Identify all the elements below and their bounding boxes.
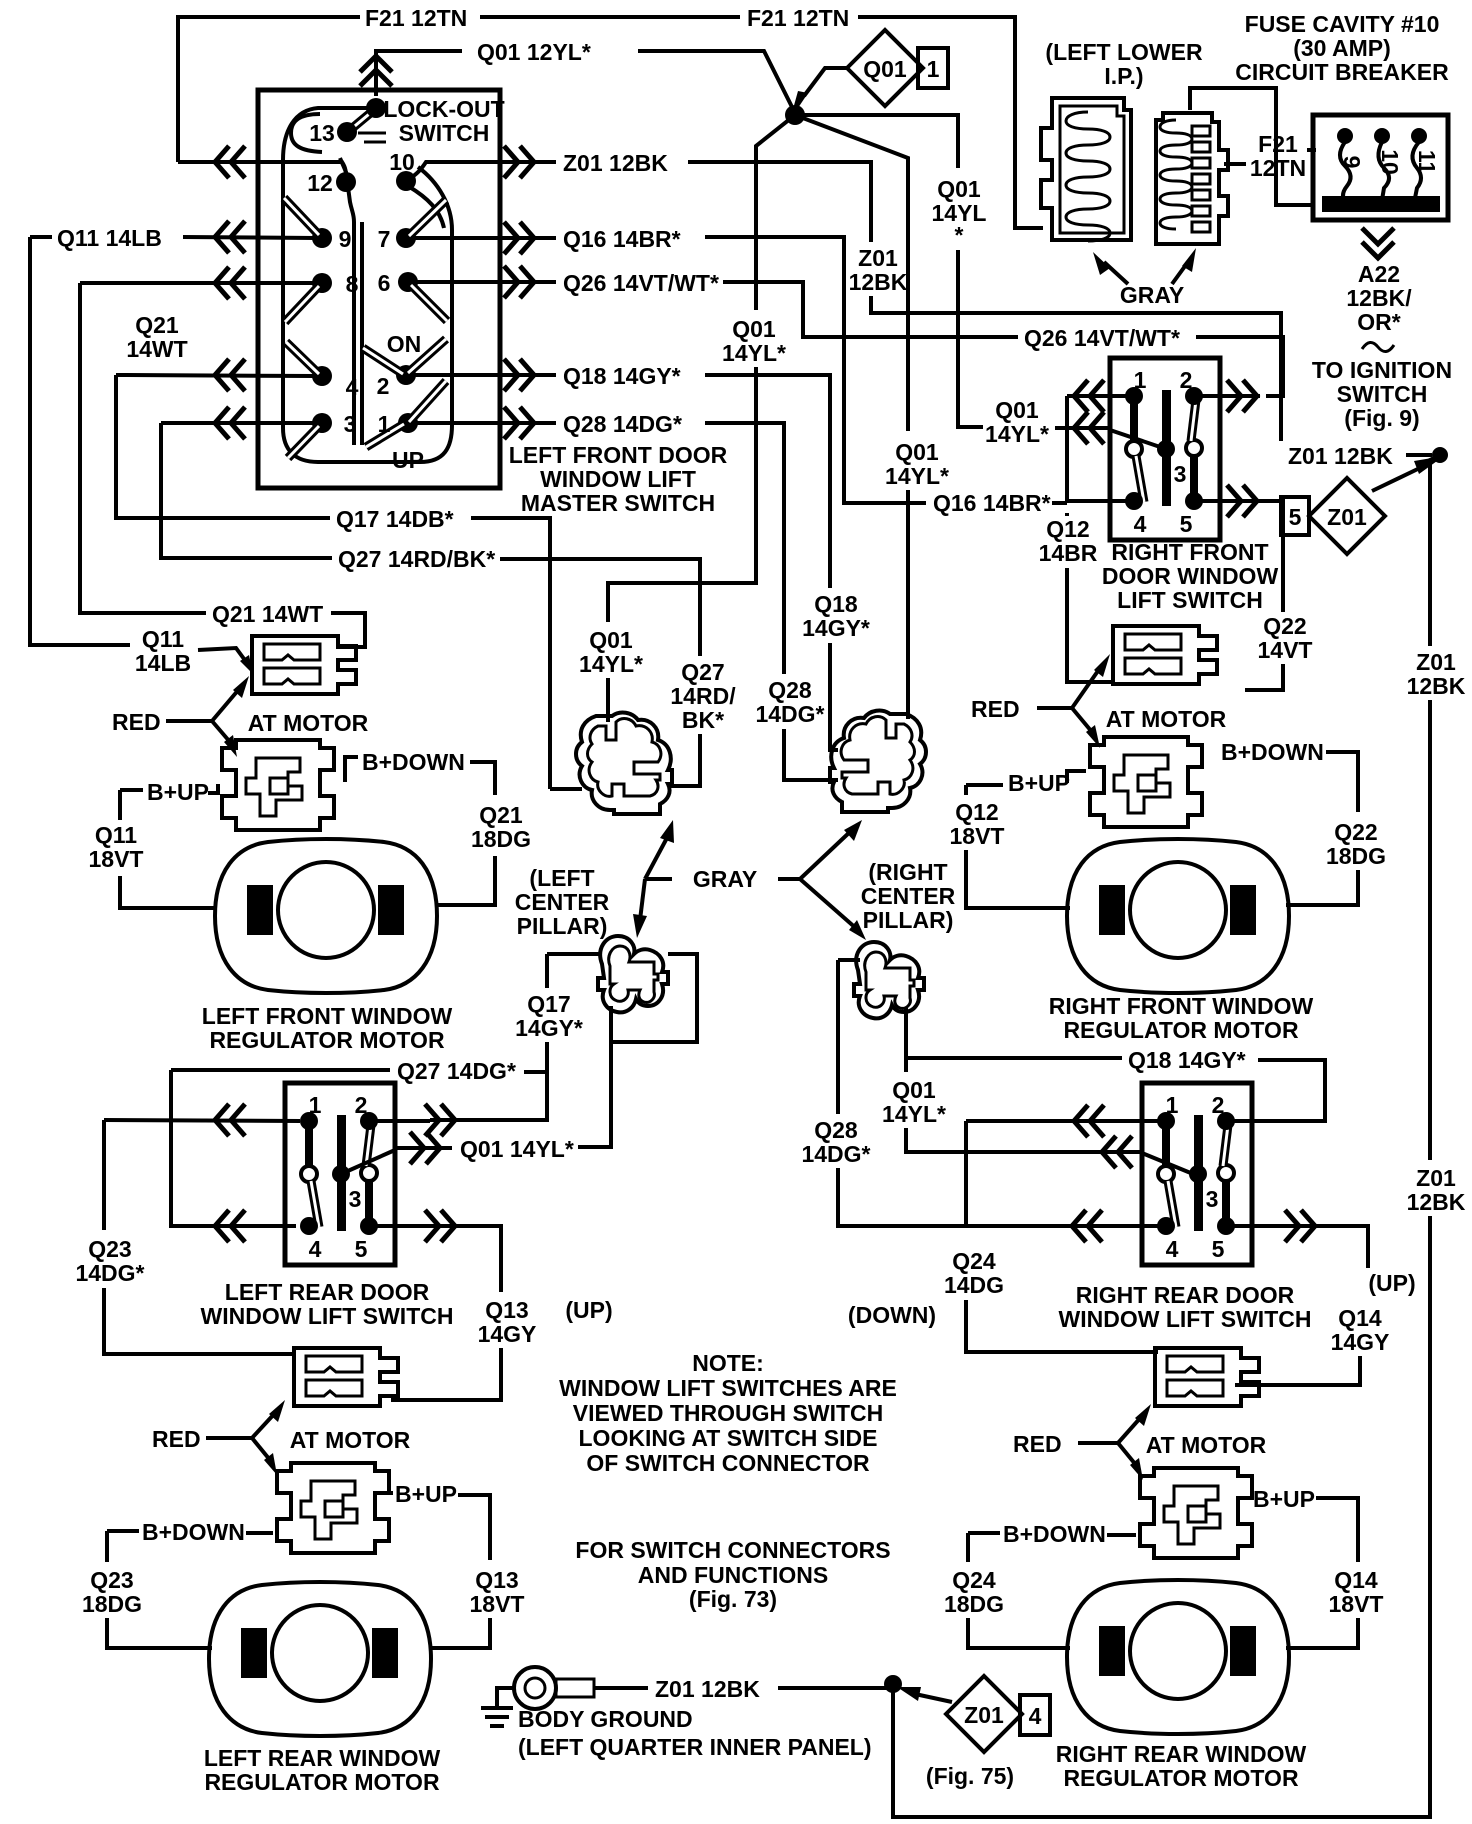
svg-text:LEFT FRONT WINDOW: LEFT FRONT WINDOW xyxy=(202,1003,453,1029)
wire GRAY dash right xyxy=(778,877,800,881)
svg-text:14DG: 14DG xyxy=(944,1272,1004,1298)
lock-out switch lever xyxy=(350,110,374,130)
node Q01 junction xyxy=(785,105,805,125)
svg-text:Z01: Z01 xyxy=(964,1702,1004,1728)
svg-text:B+UP: B+UP xyxy=(1008,770,1070,796)
wire RFD pin5 out xyxy=(1200,501,1283,612)
svg-text:Q18: Q18 xyxy=(814,591,858,617)
wire Q17 right and down xyxy=(471,518,550,789)
chevron RRD pin5 out xyxy=(1285,1210,1315,1242)
wire Q21 row xyxy=(80,281,316,285)
pin 4 xyxy=(312,366,332,386)
svg-text:14DG*: 14DG* xyxy=(75,1260,144,1286)
wire Q27 row xyxy=(161,423,332,558)
svg-text:(UP): (UP) xyxy=(565,1297,612,1323)
svg-text:Q21 14WT: Q21 14WT xyxy=(212,601,323,627)
wire RED dash LR xyxy=(206,1436,252,1440)
RR switch connector xyxy=(1155,1348,1259,1406)
chevron in F21 row xyxy=(215,146,245,178)
svg-text:A22: A22 xyxy=(1358,261,1400,287)
svg-text:WINDOW LIFT SWITCHES ARE: WINDOW LIFT SWITCHES ARE xyxy=(559,1375,897,1401)
svg-text:AT MOTOR: AT MOTOR xyxy=(248,710,369,736)
svg-text:(Fig. 73): (Fig. 73) xyxy=(689,1586,777,1612)
svg-text:LEFT REAR WINDOW: LEFT REAR WINDOW xyxy=(204,1745,441,1771)
wire Q16 to right xyxy=(705,237,926,503)
arrow from Q01 diamond to junction xyxy=(804,68,847,96)
right rear window regulator motor xyxy=(1067,1580,1289,1734)
wire Q28 out of switch xyxy=(414,421,556,425)
svg-text:18DG: 18DG xyxy=(471,826,531,852)
svg-text:9: 9 xyxy=(339,226,352,252)
wire Q28 pillar down xyxy=(836,960,840,1114)
wire Z01 right vertical xyxy=(1428,700,1432,1160)
svg-text:Q23: Q23 xyxy=(88,1236,131,1262)
wire F21 top middle xyxy=(480,15,740,19)
IP connector A inner xyxy=(1060,106,1124,233)
wire Q18 down to quad connector xyxy=(830,643,838,750)
Z01 splice diamond bottom xyxy=(946,1676,1022,1752)
wire Q17 down to LRD pin2 row xyxy=(430,1072,547,1120)
wire B+DOWN bracket RR xyxy=(968,1533,1136,1535)
wire Q17 row xyxy=(116,375,330,518)
chevron RFD row1 xyxy=(1074,380,1104,412)
Z01 diamond cavity box 4 xyxy=(1020,1695,1050,1735)
svg-text:Q17 14DB*: Q17 14DB* xyxy=(336,506,454,532)
wire F21 to IP connector xyxy=(858,17,1043,228)
wire Q24 18DG vertical xyxy=(966,1533,970,1562)
svg-text:*: * xyxy=(955,222,964,248)
svg-text:(RIGHT: (RIGHT xyxy=(868,859,947,885)
svg-text:MASTER SWITCH: MASTER SWITCH xyxy=(521,490,715,516)
svg-text:CENTER: CENTER xyxy=(515,889,610,915)
svg-text:Q13: Q13 xyxy=(485,1297,528,1323)
wire RRD pin2 out stub xyxy=(1226,1119,1298,1123)
wire Q13 18VT to motor xyxy=(430,1618,490,1648)
wire Q16 out of switch xyxy=(412,236,556,240)
svg-text:PILLAR): PILLAR) xyxy=(863,907,954,933)
svg-text:Q26 14VT/WT*: Q26 14VT/WT* xyxy=(563,270,719,296)
svg-text:OF SWITCH CONNECTOR: OF SWITCH CONNECTOR xyxy=(586,1450,870,1476)
chevron up on lockout wire xyxy=(360,56,392,86)
lock-out contact marks xyxy=(358,133,386,142)
wire Q23 18DG vertical xyxy=(105,1531,109,1562)
wire B+UP bracket RR xyxy=(1316,1498,1358,1562)
master switch lock-out curl xyxy=(291,114,322,152)
svg-text:1: 1 xyxy=(927,56,940,82)
arrow RED to motor connector LR xyxy=(252,1438,270,1460)
RFD feed diagonal xyxy=(1110,430,1166,449)
svg-text:REGULATOR MOTOR: REGULATOR MOTOR xyxy=(209,1027,445,1053)
arrow RED to motor connector LF xyxy=(212,721,230,742)
svg-text:2: 2 xyxy=(377,373,390,399)
wire Z01 right vertical top xyxy=(1430,455,1440,646)
svg-text:14YL*: 14YL* xyxy=(579,651,643,677)
svg-text:8: 8 xyxy=(346,271,359,297)
chevron LRD Q01 out xyxy=(410,1132,440,1164)
svg-text:6: 6 xyxy=(378,270,391,296)
arrow RED to switch connector RR xyxy=(1118,1416,1142,1443)
svg-text:18VT: 18VT xyxy=(1329,1591,1384,1617)
svg-text:RED: RED xyxy=(152,1426,201,1452)
svg-text:Q24: Q24 xyxy=(952,1567,996,1593)
chevron Q16 row xyxy=(504,222,534,254)
master switch pin10 curve xyxy=(408,186,444,228)
svg-text:14BR: 14BR xyxy=(1039,540,1098,566)
svg-text:14YL*: 14YL* xyxy=(985,421,1049,447)
svg-text:12TN: 12TN xyxy=(1250,155,1306,181)
wire Q26 out of switch xyxy=(414,280,556,284)
svg-text:Q01: Q01 xyxy=(892,1077,936,1103)
arrow RED to motor connector RF xyxy=(1072,708,1092,732)
svg-text:LOCK-OUT: LOCK-OUT xyxy=(383,96,504,122)
svg-text:F21: F21 xyxy=(1258,131,1298,157)
wire Q11 row to switch xyxy=(183,237,316,238)
svg-text:18VT: 18VT xyxy=(470,1591,525,1617)
svg-text:Q28 14DG*: Q28 14DG* xyxy=(563,411,682,437)
svg-text:Q01: Q01 xyxy=(863,56,907,82)
RRD feed diagonal xyxy=(1142,1153,1198,1176)
svg-text:GRAY: GRAY xyxy=(1120,282,1184,308)
Z01 diamond cavity box 5 xyxy=(1281,497,1309,535)
wire Q27 right and down xyxy=(500,559,700,656)
wire Q22 to connector xyxy=(1245,664,1283,690)
svg-text:(Fig. 75): (Fig. 75) xyxy=(926,1763,1014,1789)
svg-text:WINDOW LIFT: WINDOW LIFT xyxy=(540,466,696,492)
svg-text:(LEFT: (LEFT xyxy=(529,865,594,891)
Z01 splice diamond xyxy=(1309,478,1385,554)
svg-text:CENTER: CENTER xyxy=(861,883,956,909)
svg-text:(LEFT LOWER: (LEFT LOWER xyxy=(1045,39,1203,65)
svg-text:Q14: Q14 xyxy=(1334,1567,1378,1593)
ring terminal tab xyxy=(556,1679,594,1697)
arrow GRAY to right quad xyxy=(800,830,852,879)
rocker contact pin4 xyxy=(286,342,319,374)
chevron Q01 RFD row2 xyxy=(1074,412,1104,444)
RR motor connector xyxy=(1140,1468,1252,1558)
chevron Q18 out row xyxy=(504,359,534,391)
svg-text:FUSE CAVITY #10: FUSE CAVITY #10 xyxy=(1245,11,1440,37)
rocker contact pin7 xyxy=(409,200,446,236)
wire B+DOWN bracket left LF xyxy=(345,757,358,782)
svg-text:RED: RED xyxy=(1013,1431,1062,1457)
svg-text:7: 7 xyxy=(378,226,391,252)
IP connector B terminals xyxy=(1160,120,1192,229)
wire connector B to fuse box xyxy=(1190,88,1315,205)
svg-text:Z01: Z01 xyxy=(1416,649,1456,675)
arrow RED to switch connector LR xyxy=(252,1412,276,1438)
wire B+UP bracket LF xyxy=(120,784,218,793)
svg-text:Q26 14VT/WT*: Q26 14VT/WT* xyxy=(1024,325,1180,351)
fuse element 11 xyxy=(1412,142,1421,198)
right pillar connector xyxy=(854,942,924,1018)
chevron Q28 row xyxy=(215,407,245,439)
wire RED dash LF xyxy=(166,719,212,723)
body ground ring terminal xyxy=(514,1667,556,1709)
wire RFD pin2 out xyxy=(1200,394,1260,398)
wire Q23 to connector xyxy=(104,1288,294,1354)
svg-text:Z01: Z01 xyxy=(1416,1165,1456,1191)
wire Q28 to vertical xyxy=(705,423,784,674)
rocker contact pin6 xyxy=(411,285,447,321)
rocker contact pin2 right xyxy=(408,339,446,373)
svg-text:14RD/: 14RD/ xyxy=(670,683,736,709)
wire Z01 to right xyxy=(688,162,871,242)
wire Z01 to dot xyxy=(1406,453,1432,457)
master switch slot outline xyxy=(283,108,452,462)
wire Q21 into switch connector xyxy=(331,613,365,647)
svg-text:B+DOWN: B+DOWN xyxy=(142,1519,245,1545)
svg-text:AND FUNCTIONS: AND FUNCTIONS xyxy=(638,1562,828,1588)
chevron Q21 row xyxy=(215,267,245,299)
svg-text:Q28: Q28 xyxy=(814,1117,858,1143)
svg-text:Q11: Q11 xyxy=(142,626,184,652)
svg-text:Q24: Q24 xyxy=(952,1248,996,1274)
svg-text:Q18 14GY*: Q18 14GY* xyxy=(1128,1047,1246,1073)
svg-text:B+DOWN: B+DOWN xyxy=(1003,1521,1106,1547)
fuse terminal 11 xyxy=(1411,128,1427,144)
svg-text:SWITCH: SWITCH xyxy=(399,120,490,146)
chevron out Z01 row xyxy=(504,146,534,178)
svg-text:B+UP: B+UP xyxy=(1253,1486,1315,1512)
RFD switch xyxy=(1110,358,1220,540)
wire Q24 to connector xyxy=(966,1300,1158,1352)
arrow GRAY to connector A xyxy=(1104,262,1128,284)
wire Q14 to connector xyxy=(1235,1356,1360,1385)
svg-text:12BK/: 12BK/ xyxy=(1346,285,1412,311)
svg-text:BK*: BK* xyxy=(682,707,724,733)
wire Q14 18VT to motor xyxy=(1286,1618,1358,1648)
svg-text:Q01: Q01 xyxy=(995,397,1039,423)
pin 10 xyxy=(396,171,416,191)
wire Q28 row left xyxy=(161,421,316,425)
LRD switch xyxy=(285,1083,395,1265)
rocker contact pin1 right xyxy=(409,381,446,422)
wire Q01 left pillar down xyxy=(578,1042,611,1147)
wire Q21 14WT label row xyxy=(80,283,206,613)
svg-text:Q21: Q21 xyxy=(479,802,523,828)
arrow GRAY to left quad xyxy=(645,836,668,879)
chevron Q28 out row xyxy=(504,407,534,439)
svg-text:DOOR WINDOW: DOOR WINDOW xyxy=(1102,563,1279,589)
wire Q16 into RFD row4 xyxy=(1052,501,1067,505)
svg-text:(UP): (UP) xyxy=(1368,1270,1415,1296)
svg-text:14WT: 14WT xyxy=(126,336,187,362)
Q01 diamond cavity box 1 xyxy=(918,48,948,88)
svg-text:GRAY: GRAY xyxy=(693,866,757,892)
arrow GRAY to connector B xyxy=(1172,262,1188,284)
svg-text:LOOKING AT SWITCH SIDE: LOOKING AT SWITCH SIDE xyxy=(579,1425,878,1451)
svg-text:NOTE:: NOTE: xyxy=(692,1350,764,1376)
lock-out common pin xyxy=(366,98,386,118)
svg-text:SWITCH: SWITCH xyxy=(1337,381,1428,407)
svg-text:REGULATOR MOTOR: REGULATOR MOTOR xyxy=(204,1769,440,1795)
svg-text:12BK: 12BK xyxy=(1407,1189,1466,1215)
rocker contact pin1 left xyxy=(366,424,404,447)
svg-text:AT MOTOR: AT MOTOR xyxy=(1106,706,1227,732)
wire Q27 label to Q17 vertical xyxy=(524,1070,547,1074)
fuse terminal 9 xyxy=(1337,128,1353,144)
wire row Z01 out of switch xyxy=(406,162,556,181)
IP connector B terminal rects xyxy=(1192,126,1210,232)
break squiggle xyxy=(1362,342,1394,351)
svg-text:VIEWED THROUGH SWITCH: VIEWED THROUGH SWITCH xyxy=(573,1400,884,1426)
chevron RFD pin5 out xyxy=(1227,485,1257,517)
IP connector B outline xyxy=(1156,113,1228,244)
chevron RRD row3 xyxy=(1072,1210,1102,1242)
node Z01 top xyxy=(1432,447,1448,463)
wire Q17 down to Q27 row xyxy=(547,954,600,1120)
svg-text:AT MOTOR: AT MOTOR xyxy=(1146,1432,1267,1458)
wire Q11 row xyxy=(30,235,52,239)
fuse box F21 xyxy=(1313,115,1448,220)
wire Q17 branch to quad xyxy=(550,787,582,791)
RF motor connector xyxy=(1090,737,1202,827)
svg-text:Q12: Q12 xyxy=(955,799,998,825)
svg-text:1: 1 xyxy=(378,411,391,437)
wire RRD row1 left xyxy=(966,1119,1158,1123)
svg-text:12BK: 12BK xyxy=(849,269,908,295)
wire Q28 to RRD row3 xyxy=(838,1168,1072,1226)
wire RRD pin1-pin4 link xyxy=(964,1121,968,1226)
svg-text:B+DOWN: B+DOWN xyxy=(1221,739,1324,765)
wire B+UP bracket RF xyxy=(966,771,1086,785)
svg-text:Q12: Q12 xyxy=(1046,516,1089,542)
fuse element 10 xyxy=(1378,142,1389,200)
wire Q01 down to RFD xyxy=(958,250,983,427)
arrow RED to switch connector RF xyxy=(1072,668,1100,708)
wire Q01 down to right quad xyxy=(906,490,910,719)
LRD feed diagonal xyxy=(341,1150,395,1174)
wire LRD Q01 out xyxy=(395,1146,452,1150)
svg-text:Q01 14YL*: Q01 14YL* xyxy=(460,1136,574,1162)
svg-text:14GY*: 14GY* xyxy=(515,1015,583,1041)
wire connector B to F21 label xyxy=(1224,162,1246,166)
svg-text:14GY*: 14GY* xyxy=(802,615,870,641)
svg-text:Q17: Q17 xyxy=(527,991,570,1017)
wire RFD pin1 to pin4 link xyxy=(1065,396,1069,503)
svg-text:Q28: Q28 xyxy=(768,677,812,703)
master switch U1 box xyxy=(258,90,500,488)
LR motor connector xyxy=(277,1463,389,1553)
LR switch connector xyxy=(294,1348,398,1406)
svg-text:B+UP: B+UP xyxy=(395,1481,457,1507)
wire RFD row4 xyxy=(1067,499,1128,503)
master switch neck divider xyxy=(340,158,354,445)
wire Q18 out of switch xyxy=(412,373,556,377)
svg-text:10: 10 xyxy=(389,149,415,175)
svg-text:Z01 12BK: Z01 12BK xyxy=(1288,443,1393,469)
wire Z01 bottom loop xyxy=(893,1216,1430,1817)
wire Z01 from ground xyxy=(594,1686,648,1690)
svg-text:18DG: 18DG xyxy=(82,1591,142,1617)
wire Q01 right pillar down xyxy=(904,1058,908,1072)
chevron Q18 row xyxy=(215,359,245,391)
svg-text:Q01: Q01 xyxy=(732,316,776,342)
svg-text:RIGHT FRONT WINDOW: RIGHT FRONT WINDOW xyxy=(1049,993,1314,1019)
svg-text:14GY: 14GY xyxy=(1331,1329,1390,1355)
chevron LRD row1 xyxy=(215,1104,245,1136)
svg-text:Z01 12BK: Z01 12BK xyxy=(563,150,668,176)
svg-text:Q21: Q21 xyxy=(135,312,179,338)
LF motor connector xyxy=(222,740,334,830)
svg-text:14LB: 14LB xyxy=(135,650,191,676)
label Q27 14DG* xyxy=(171,1068,390,1072)
rocker contact pin9 xyxy=(284,198,319,235)
arrow RED to motor connector RR xyxy=(1118,1443,1136,1465)
rocker contact pin8 xyxy=(285,286,319,322)
svg-text:Z01: Z01 xyxy=(1327,504,1367,530)
left front window regulator motor xyxy=(215,839,437,993)
chevron Q11 row xyxy=(215,221,245,253)
svg-text:REGULATOR MOTOR: REGULATOR MOTOR xyxy=(1063,1765,1299,1791)
wire Q27 down to quad connector xyxy=(668,734,700,786)
wire Q22 18DG to motor xyxy=(1286,870,1358,905)
wire left pillar right loop xyxy=(611,954,697,1042)
wire Q01 main left down xyxy=(608,367,756,622)
svg-text:Q16 14BR*: Q16 14BR* xyxy=(563,226,681,252)
wire Q18 row left xyxy=(116,375,316,376)
rocker contact pin3 xyxy=(288,426,319,458)
svg-text:F21 12TN: F21 12TN xyxy=(365,5,467,31)
wire row F21 into switch xyxy=(178,162,346,180)
svg-text:Q27 14RD/BK*: Q27 14RD/BK* xyxy=(338,546,495,572)
arrow Z01 diamond to node xyxy=(1372,466,1424,491)
svg-text:LIFT SWITCH: LIFT SWITCH xyxy=(1117,587,1263,613)
svg-text:UP: UP xyxy=(392,447,424,473)
wire Z01 to node xyxy=(778,1686,888,1690)
IP connector A terminals xyxy=(1066,112,1110,241)
svg-text:Q27: Q27 xyxy=(681,659,724,685)
LF switch connector xyxy=(252,636,356,694)
wire Q24 18DG to motor xyxy=(968,1618,1070,1648)
svg-text:Q22: Q22 xyxy=(1263,613,1306,639)
svg-text:18VT: 18VT xyxy=(950,823,1005,849)
wire RED dash RF xyxy=(1037,706,1072,710)
svg-text:TO IGNITION: TO IGNITION xyxy=(1312,357,1452,383)
svg-text:FOR SWITCH CONNECTORS: FOR SWITCH CONNECTORS xyxy=(575,1537,890,1563)
chevron LRD row2 xyxy=(215,1210,245,1242)
wire Q13 to connector xyxy=(391,1348,501,1400)
svg-text:RIGHT REAR WINDOW: RIGHT REAR WINDOW xyxy=(1056,1741,1307,1767)
svg-text:9: 9 xyxy=(1339,156,1365,169)
wire right pillar left in xyxy=(838,958,860,962)
wire Q01 12YL to junction xyxy=(638,51,795,113)
IP connector A outline xyxy=(1041,98,1131,240)
right quad connector mirrored xyxy=(830,711,926,812)
svg-text:B+UP: B+UP xyxy=(147,779,209,805)
wire B+DOWN bracket right LF xyxy=(470,762,495,795)
node Z01 bottom xyxy=(884,1675,902,1693)
svg-text:ON: ON xyxy=(387,331,422,357)
wire Q23 18DG to motor xyxy=(107,1618,212,1648)
svg-text:LEFT FRONT DOOR: LEFT FRONT DOOR xyxy=(509,442,728,468)
svg-text:WINDOW LIFT SWITCH: WINDOW LIFT SWITCH xyxy=(201,1303,454,1329)
svg-text:RED: RED xyxy=(971,696,1020,722)
wire RFD row1 left xyxy=(1067,394,1128,398)
wire B+DOWN bracket LR xyxy=(107,1531,273,1533)
svg-text:Q16 14BR*: Q16 14BR* xyxy=(933,490,1051,516)
wire Q11 18VT to motor xyxy=(120,876,217,908)
svg-text:13: 13 xyxy=(309,120,335,146)
RF switch connector xyxy=(1113,626,1217,684)
wire Q18 row bottom xyxy=(906,1056,1122,1060)
pin 9 xyxy=(312,228,332,248)
svg-text:RIGHT REAR DOOR: RIGHT REAR DOOR xyxy=(1076,1282,1295,1308)
wire Q11 down left side xyxy=(30,237,130,645)
wire lockout up arrow xyxy=(376,51,462,96)
wire GRAY dash left xyxy=(645,877,672,881)
wire Q26 to right xyxy=(723,282,1018,337)
